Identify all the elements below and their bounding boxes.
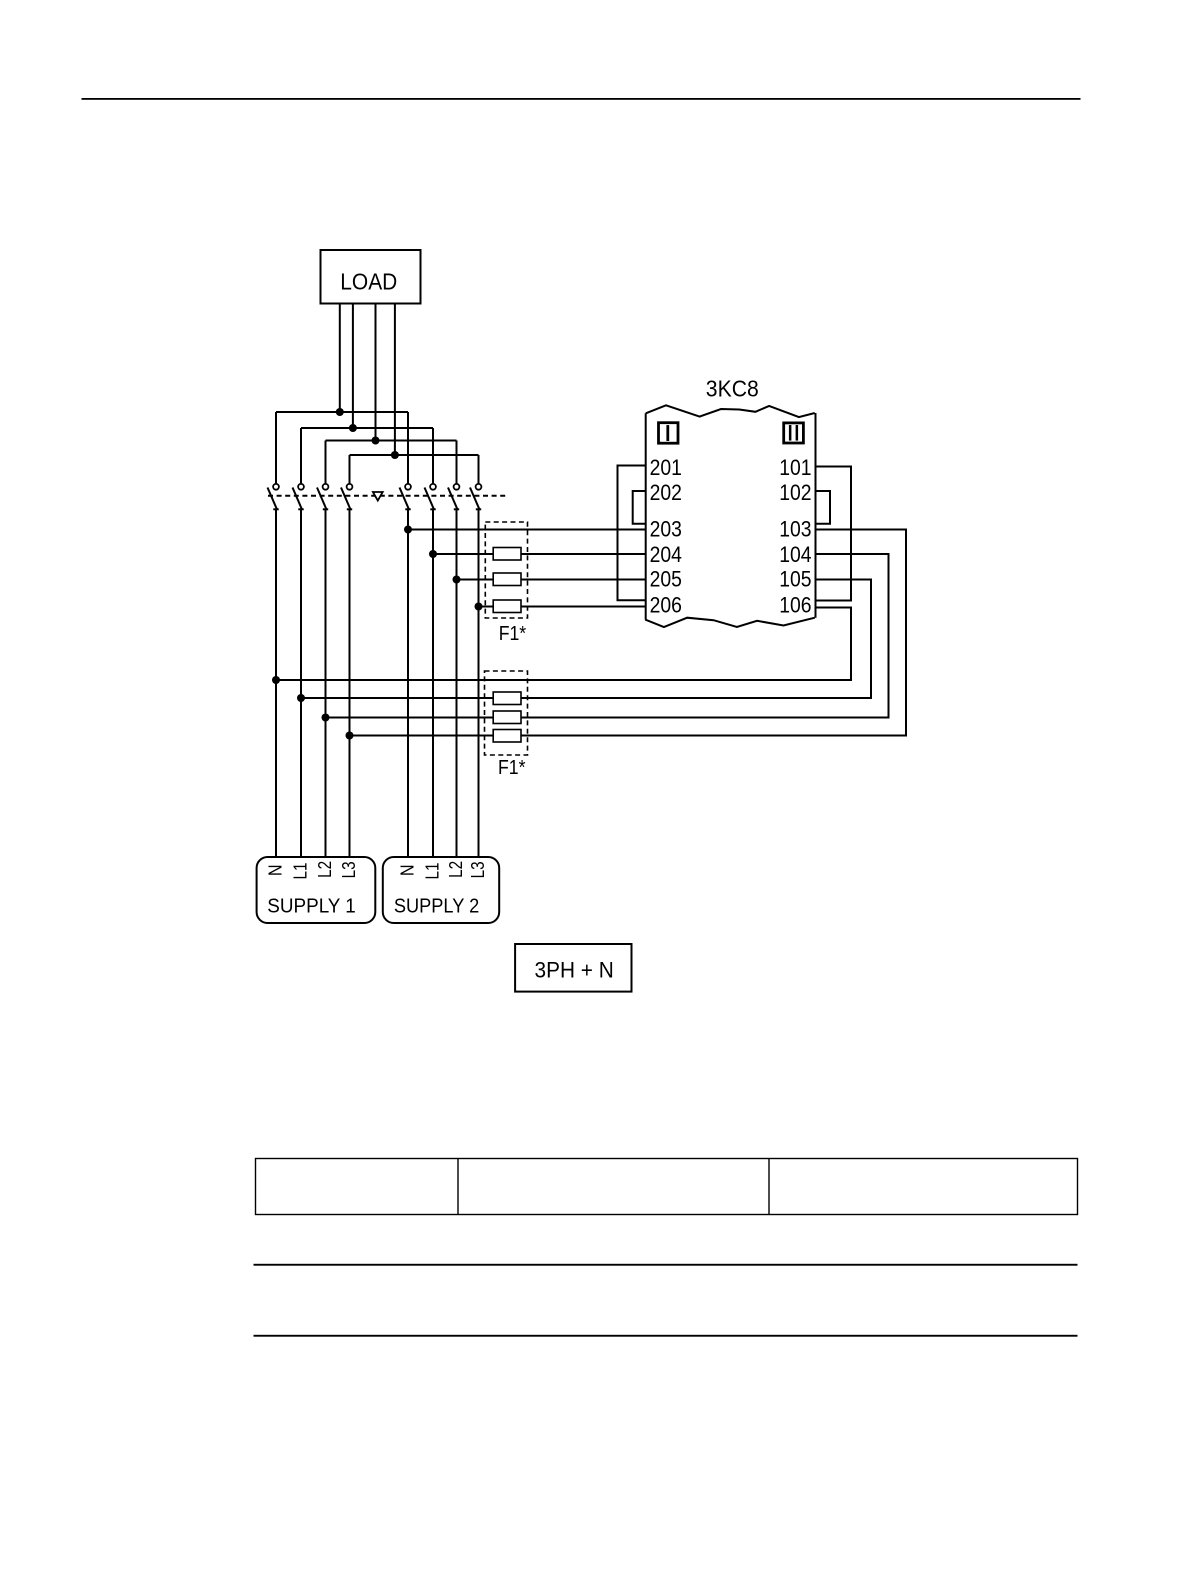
svg-text:L2: L2 [445,861,466,878]
svg-text:L1: L1 [290,863,311,880]
svg-text:103: 103 [779,517,811,542]
svg-text:N: N [265,865,286,877]
svg-text:L3: L3 [338,861,359,878]
svg-text:203: 203 [650,517,682,542]
svg-text:3KC8: 3KC8 [706,376,759,402]
svg-text:SUPPLY 1: SUPPLY 1 [267,896,356,918]
svg-text:102: 102 [779,480,811,505]
svg-text:105: 105 [779,567,811,592]
svg-text:N: N [397,865,418,877]
svg-text:F1*: F1* [498,757,526,779]
svg-text:106: 106 [779,593,811,618]
svg-text:L1: L1 [422,863,443,880]
svg-text:L3: L3 [467,861,488,878]
svg-text:F1*: F1* [499,623,527,645]
svg-text:SUPPLY 2: SUPPLY 2 [394,896,479,918]
svg-text:204: 204 [650,542,682,567]
svg-text:3PH + N: 3PH + N [535,958,614,983]
svg-text:LOAD: LOAD [340,268,397,294]
svg-text:L2: L2 [314,861,335,878]
svg-text:101: 101 [779,455,811,480]
svg-text:104: 104 [779,542,811,567]
svg-text:206: 206 [650,593,682,618]
svg-text:202: 202 [650,480,682,505]
svg-text:201: 201 [650,455,682,480]
svg-text:205: 205 [650,567,682,592]
